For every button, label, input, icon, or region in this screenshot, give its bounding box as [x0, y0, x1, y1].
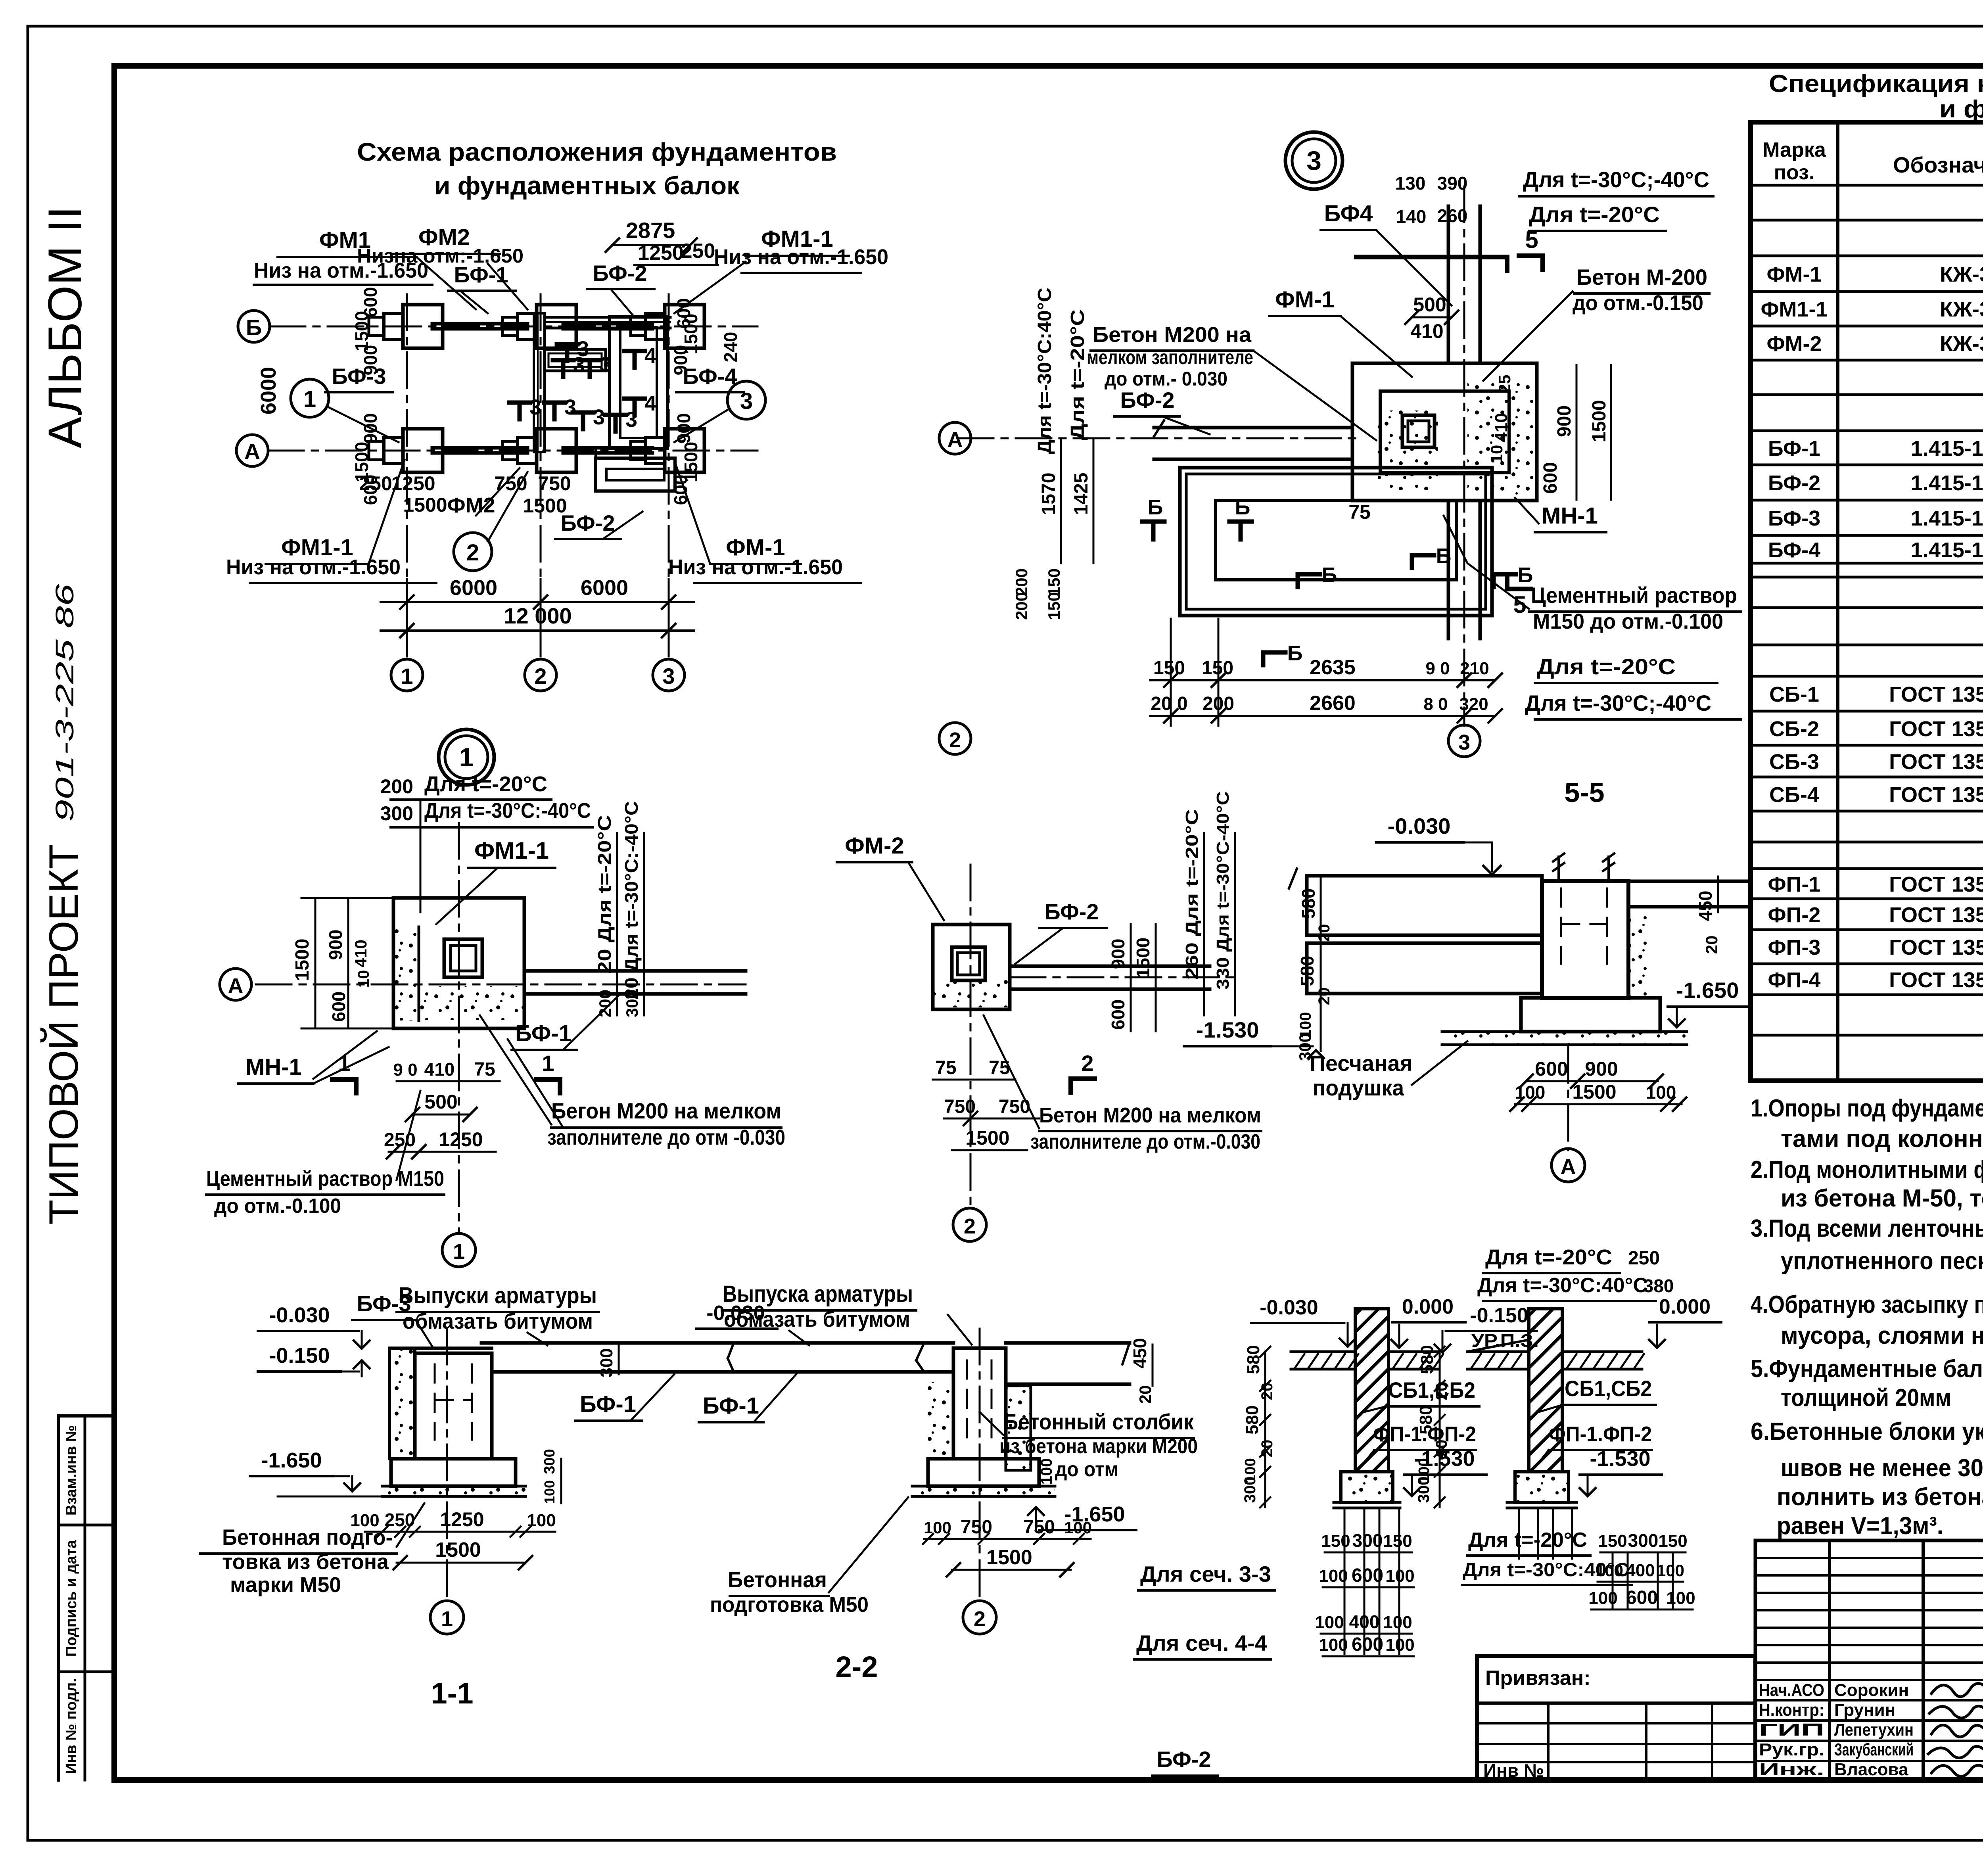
svg-text:2: 2: [974, 1607, 986, 1631]
svg-text:150: 150: [1045, 568, 1063, 596]
svg-text:-0.030: -0.030: [1388, 813, 1451, 838]
svg-text:1500: 1500: [403, 494, 447, 516]
svg-text:380: 380: [1644, 1276, 1674, 1296]
svg-text:БФ-1: БФ-1: [1768, 437, 1820, 460]
svg-text:300: 300: [1241, 1477, 1259, 1503]
svg-text:100: 100: [1385, 1566, 1414, 1586]
svg-text:2-2: 2-2: [836, 1650, 878, 1683]
svg-text:200: 200: [380, 775, 413, 798]
svg-text:ГОСТ 13580-80: ГОСТ 13580-80: [1889, 903, 1983, 927]
svg-text:130: 130: [1395, 173, 1426, 194]
svg-text:заполнителе до отм -0.030: заполнителе до отм -0.030: [547, 1126, 785, 1149]
svg-text:-0.030: -0.030: [269, 1303, 330, 1327]
svg-text:Спецификация к схеме распо: Спецификация к схеме расположения фундам…: [1769, 70, 1983, 98]
svg-text:0.000: 0.000: [1402, 1295, 1454, 1318]
svg-text:Низ на отм.-1.650: Низ на отм.-1.650: [226, 555, 401, 579]
svg-text:1500: 1500: [965, 1127, 1009, 1149]
svg-text:Бетон М200 на: Бетон М200 на: [1093, 323, 1252, 347]
svg-text:6000: 6000: [450, 576, 497, 600]
svg-text:БФ-2: БФ-2: [1120, 387, 1174, 412]
svg-text:Закубанский: Закубанский: [1834, 1740, 1914, 1759]
svg-text:200: 200: [596, 990, 614, 1017]
svg-text:20 Для t=-30°C:-40°C: 20 Для t=-30°C:-40°C: [621, 801, 642, 999]
svg-text:Б: Б: [246, 315, 262, 340]
svg-text:обмазать битумом: обмазать битумом: [403, 1308, 593, 1333]
svg-text:2: 2: [949, 728, 961, 752]
svg-text:БФ-2: БФ-2: [1044, 899, 1099, 924]
svg-text:-1.650: -1.650: [1676, 978, 1739, 1003]
svg-text:900: 900: [670, 345, 691, 376]
svg-text:ГОСТ 13575-78: ГОСТ 13575-78: [1889, 750, 1983, 774]
svg-text:Песчаная: Песчаная: [1310, 1051, 1413, 1076]
svg-text:МН-1: МН-1: [245, 1054, 302, 1080]
svg-text:260 Для t=-20°C: 260 Для t=-20°C: [1182, 809, 1202, 980]
svg-text:ФМ-2: ФМ-2: [845, 833, 904, 859]
svg-text:3: 3: [740, 388, 753, 414]
svg-text:ГИП: ГИП: [1759, 1720, 1824, 1740]
svg-text:300: 300: [380, 802, 413, 825]
svg-text:ФМ-1: ФМ-1: [1275, 287, 1334, 313]
svg-text:Для t=-20°C: Для t=-20°C: [1067, 309, 1088, 440]
svg-text:-0.150: -0.150: [269, 1344, 330, 1368]
svg-text:410: 410: [1492, 413, 1511, 442]
svg-text:200: 200: [1202, 693, 1234, 714]
svg-text:100: 100: [1385, 1635, 1414, 1655]
svg-text:1250: 1250: [439, 1128, 483, 1151]
svg-text:толщиной 20мм: толщиной 20мм: [1781, 1384, 1951, 1412]
svg-text:и фундаментных балок: и фундаментных балок: [1939, 96, 1983, 123]
svg-text:Н.контр:: Н.контр:: [1759, 1700, 1824, 1720]
svg-text:-0.030: -0.030: [1260, 1296, 1318, 1319]
svg-text:1: 1: [542, 1051, 554, 1076]
svg-text:0.000: 0.000: [1659, 1295, 1711, 1318]
svg-text:Низ на отм.-1.650: Низ на отм.-1.650: [668, 555, 843, 579]
svg-text:швов не менее 300мм. Моноли: швов не менее 300мм. Монолитные участки …: [1781, 1454, 1983, 1482]
svg-text:БФ-4: БФ-4: [1768, 538, 1820, 562]
svg-text:6000: 6000: [257, 367, 280, 414]
svg-text:900: 900: [360, 413, 381, 444]
svg-text:500: 500: [424, 1091, 457, 1113]
svg-text:СБ1,СБ2: СБ1,СБ2: [1388, 1377, 1475, 1402]
svg-text:4: 4: [644, 391, 656, 415]
svg-text:БФ4: БФ4: [1324, 201, 1373, 226]
svg-text:300: 300: [597, 1348, 616, 1377]
svg-text:750: 750: [1023, 1517, 1055, 1538]
svg-text:1570: 1570: [1038, 473, 1059, 515]
svg-text:Бетонная: Бетонная: [728, 1567, 827, 1592]
svg-text:до отм: до отм: [1055, 1458, 1118, 1481]
svg-text:СБ-2: СБ-2: [1769, 717, 1819, 741]
svg-text:Инж.: Инж.: [1759, 1760, 1824, 1779]
svg-text:Для t=-20°C: Для t=-20°C: [1537, 654, 1676, 679]
svg-text:750: 750: [538, 472, 571, 495]
svg-text:ГОСТ 13580-80: ГОСТ 13580-80: [1889, 873, 1983, 896]
svg-text:Б: Б: [1436, 544, 1452, 568]
svg-text:ФМ-2: ФМ-2: [1766, 332, 1822, 356]
svg-text:9 0: 9 0: [393, 1060, 417, 1080]
svg-text:Для t=-20°C: Для t=-20°C: [424, 772, 547, 796]
svg-text:до отм.-0.100: до отм.-0.100: [214, 1195, 341, 1218]
svg-text:410: 410: [424, 1059, 455, 1080]
svg-text:4.Обратную засыпку производи: 4.Обратную засыпку производить грунтом б…: [1751, 1291, 1983, 1318]
svg-text:1: 1: [441, 1607, 453, 1631]
svg-text:3: 3: [662, 664, 675, 689]
svg-text:Бетон М200 на мелком: Бетон М200 на мелком: [1039, 1103, 1261, 1127]
svg-text:100: 100: [1383, 1613, 1412, 1632]
svg-text:3.Под всеми ленточными фунда: 3.Под всеми ленточными фундаментами из б…: [1751, 1215, 1983, 1242]
svg-text:2660: 2660: [1310, 692, 1356, 715]
svg-text:3: 3: [600, 353, 612, 377]
svg-text:4: 4: [644, 344, 656, 368]
svg-text:Для сеч. 3-3: Для сеч. 3-3: [1140, 1561, 1271, 1586]
svg-text:1425: 1425: [1071, 473, 1092, 515]
svg-text:и фундаментных балок: и фундаментных балок: [434, 171, 740, 200]
svg-text:Для t=-30°C;-40°C: Для t=-30°C;-40°C: [1523, 167, 1709, 192]
svg-text:400: 400: [1626, 1561, 1655, 1580]
svg-text:Б: Б: [1235, 495, 1250, 519]
svg-text:410: 410: [1410, 320, 1443, 342]
svg-text:100: 100: [1315, 1613, 1344, 1632]
svg-text:товка из бетона: товка из бетона: [222, 1550, 389, 1574]
svg-text:1: 1: [303, 386, 316, 412]
svg-text:1: 1: [459, 742, 474, 772]
svg-text:Б: Б: [1148, 495, 1163, 519]
svg-text:25: 25: [1495, 375, 1514, 393]
svg-text:200: 200: [1012, 568, 1031, 596]
svg-text:МН-1: МН-1: [1542, 503, 1598, 529]
svg-text:600: 600: [1108, 999, 1128, 1030]
svg-text:Лепетухин: Лепетухин: [1834, 1720, 1914, 1740]
svg-text:3: 3: [593, 405, 605, 429]
svg-text:СБ1,СБ2: СБ1,СБ2: [1565, 1376, 1652, 1401]
svg-text:М150 до отм.-0.100: М150 до отм.-0.100: [1533, 610, 1723, 633]
svg-text:2.Под монолитными фундамента: 2.Под монолитными фундаментами выполнить…: [1751, 1156, 1983, 1184]
svg-text:300: 300: [1296, 1033, 1314, 1061]
svg-text:2: 2: [466, 540, 479, 566]
svg-text:КЖ-3: КЖ-3: [1940, 332, 1983, 356]
svg-text:2: 2: [964, 1214, 976, 1238]
svg-text:1.Опоры под фундаментные балк: 1.Опоры под фундаментные балки бетониров…: [1751, 1095, 1983, 1122]
svg-text:300: 300: [1415, 1477, 1433, 1503]
svg-text:ФМ1-1: ФМ1-1: [1761, 297, 1828, 321]
svg-text:12 000: 12 000: [504, 603, 572, 628]
svg-text:заполнителе до отм.-0.030: заполнителе до отм.-0.030: [1030, 1130, 1260, 1153]
svg-text:до отм.- 0.030: до отм.- 0.030: [1105, 368, 1227, 390]
svg-text:уплотненного песка h=100мм.: уплотненного песка h=100мм.: [1781, 1247, 1983, 1275]
svg-text:3: 3: [1306, 146, 1321, 176]
svg-text:100: 100: [1515, 1082, 1546, 1103]
svg-text:Бетон М-200: Бетон М-200: [1576, 265, 1707, 290]
svg-text:ФМ2: ФМ2: [447, 493, 495, 517]
svg-text:ФП-1: ФП-1: [1768, 873, 1821, 896]
svg-text:3: 3: [564, 395, 576, 419]
svg-text:полнить из бетона М100. Объ: полнить из бетона М100. Объем бетона на …: [1777, 1483, 1983, 1511]
svg-text:КЖ-3: КЖ-3: [1940, 263, 1983, 286]
svg-text:140: 140: [1396, 206, 1427, 227]
svg-text:901-3-225 86: 901-3-225 86: [50, 583, 79, 822]
svg-text:450: 450: [1130, 1338, 1150, 1369]
svg-text:Выпуски арматуры: Выпуски арматуры: [399, 1283, 597, 1308]
svg-text:900: 900: [1585, 1058, 1618, 1080]
svg-text:БФ-2: БФ-2: [560, 510, 615, 535]
svg-text:8 0: 8 0: [1423, 694, 1448, 714]
svg-text:поз.: поз.: [1774, 161, 1815, 184]
svg-text:3: 3: [573, 353, 585, 377]
svg-text:1: 1: [401, 664, 413, 689]
svg-text:из бетона марки М200: из бетона марки М200: [999, 1435, 1198, 1458]
svg-text:ФП-2: ФП-2: [1768, 903, 1821, 927]
svg-text:20: 20: [1316, 988, 1333, 1005]
svg-text:Для t=-30°C:40°C: Для t=-30°C:40°C: [1034, 288, 1055, 454]
svg-text:ФП-1.ФП-2: ФП-1.ФП-2: [1549, 1422, 1652, 1446]
svg-text:100: 100: [1596, 1561, 1623, 1580]
svg-text:БФ-1: БФ-1: [580, 1391, 636, 1417]
svg-text:600: 600: [1540, 462, 1561, 494]
svg-text:ГОСТ 13575-78: ГОСТ 13575-78: [1889, 683, 1983, 706]
svg-text:1.415-1 в.1: 1.415-1 в.1: [1911, 471, 1983, 495]
svg-text:330 Для t=-30°C-40°C: 330 Для t=-30°C-40°C: [1213, 791, 1233, 990]
svg-text:100: 100: [1064, 1518, 1092, 1537]
svg-text:10: 10: [355, 970, 372, 988]
svg-text:ФП-4: ФП-4: [1768, 968, 1821, 992]
svg-text:равен V=1,3м³.: равен V=1,3м³.: [1777, 1512, 1943, 1540]
svg-text:100: 100: [1319, 1566, 1348, 1586]
svg-text:Схема расположения фундамент: Схема расположения фундаментов: [357, 138, 837, 166]
svg-text:ТИПОВОЙ ПРОЕКТ: ТИПОВОЙ ПРОЕКТ: [40, 844, 87, 1225]
svg-text:20: 20: [1316, 924, 1333, 942]
svg-text:1500: 1500: [435, 1538, 481, 1561]
svg-text:6000: 6000: [581, 576, 628, 600]
svg-text:600: 600: [1535, 1058, 1568, 1080]
svg-text:20: 20: [1136, 1385, 1155, 1404]
svg-text:до отм.-0.150: до отм.-0.150: [1573, 291, 1703, 315]
svg-text:9 0: 9 0: [1425, 659, 1450, 678]
svg-text:Для t=-20°C: Для t=-20°C: [1468, 1529, 1587, 1552]
svg-text:150: 150: [1383, 1531, 1412, 1551]
svg-text:750: 750: [944, 1096, 976, 1117]
svg-text:600: 600: [1352, 1634, 1383, 1655]
svg-text:1: 1: [338, 1051, 350, 1076]
svg-text:-0.150: -0.150: [1470, 1304, 1528, 1327]
svg-text:Подпись и дата: Подпись и дата: [63, 1540, 80, 1657]
svg-text:900: 900: [673, 413, 694, 444]
svg-text:Нач.АСО: Нач.АСО: [1759, 1680, 1824, 1700]
svg-text:100: 100: [1657, 1561, 1684, 1580]
svg-text:450: 450: [1695, 891, 1716, 921]
svg-text:Марка: Марка: [1762, 138, 1826, 161]
svg-text:Бегон М200 на мелком: Бегон М200 на мелком: [551, 1098, 781, 1123]
svg-text:75: 75: [474, 1059, 495, 1080]
svg-text:580: 580: [1417, 1345, 1437, 1374]
svg-text:Власова: Власова: [1834, 1760, 1908, 1779]
svg-text:390: 390: [1437, 173, 1468, 194]
svg-text:580: 580: [1298, 888, 1319, 919]
svg-text:150: 150: [1321, 1531, 1350, 1551]
svg-text:1.415-1 в.1: 1.415-1 в.1: [1911, 506, 1983, 530]
svg-text:А: А: [947, 428, 963, 452]
svg-text:2875: 2875: [626, 218, 675, 243]
svg-text:Грунин: Грунин: [1834, 1700, 1895, 1720]
svg-text:300: 300: [541, 1449, 558, 1474]
svg-text:5.Фундаментные балки укладыв: 5.Фундаментные балки укладывать на слой …: [1751, 1355, 1983, 1383]
svg-text:100: 100: [1319, 1635, 1348, 1655]
svg-text:150: 150: [1045, 592, 1063, 620]
svg-text:5-5: 5-5: [1564, 777, 1604, 808]
svg-text:Инв №: Инв №: [1483, 1760, 1544, 1781]
svg-text:обмазать битумом: обмазать битумом: [724, 1306, 910, 1331]
svg-text:100: 100: [1588, 1588, 1617, 1608]
svg-text:3: 3: [1458, 731, 1470, 754]
svg-text:100: 100: [350, 1511, 379, 1530]
svg-text:ГОСТ 13575-78: ГОСТ 13575-78: [1889, 717, 1983, 741]
svg-text:Привязан:: Привязан:: [1485, 1667, 1591, 1690]
svg-text:400: 400: [1349, 1611, 1380, 1632]
svg-text:ФП-3: ФП-3: [1768, 936, 1821, 959]
svg-text:БФ-2: БФ-2: [1768, 471, 1820, 495]
svg-text:тами под колонны в той же: тами под колонны в той же опалубке.: [1781, 1125, 1983, 1153]
svg-text:БФ-2: БФ-2: [593, 261, 647, 286]
svg-text:3: 3: [529, 395, 541, 419]
svg-text:260: 260: [1437, 205, 1468, 226]
svg-text:250: 250: [681, 240, 715, 263]
svg-text:подушка: подушка: [1313, 1075, 1404, 1100]
svg-text:1: 1: [453, 1240, 465, 1264]
svg-text:Бетонный столбик: Бетонный столбик: [1003, 1409, 1194, 1434]
svg-text:БФ-4: БФ-4: [683, 364, 737, 389]
svg-text:КЖ-3: КЖ-3: [1940, 297, 1983, 321]
svg-text:210: 210: [1460, 659, 1489, 678]
svg-text:Б: Б: [1322, 563, 1337, 587]
svg-text:250: 250: [384, 1130, 416, 1151]
svg-text:мусора, слоями не более 200: мусора, слоями не более 200мм с уплотнен…: [1781, 1322, 1983, 1349]
svg-text:10: 10: [1487, 445, 1506, 464]
svg-text:БФ-3: БФ-3: [1768, 506, 1820, 530]
svg-text:150: 150: [1658, 1531, 1687, 1551]
svg-text:БФ-2: БФ-2: [1156, 1747, 1211, 1772]
svg-text:2: 2: [534, 664, 547, 689]
svg-text:Для t=-30°C:40°C: Для t=-30°C:40°C: [1477, 1274, 1648, 1297]
svg-text:1-1: 1-1: [431, 1677, 474, 1710]
svg-text:ГОСТ 13580-80: ГОСТ 13580-80: [1889, 968, 1983, 992]
svg-text:600: 600: [1352, 1565, 1383, 1586]
svg-text:150: 150: [1598, 1531, 1627, 1551]
svg-text:250: 250: [385, 1510, 415, 1530]
svg-text:6.Бетонные блоки укладывать: 6.Бетонные блоки укладывать на цем. раст…: [1751, 1418, 1983, 1445]
svg-text:1.415-1 в.1: 1.415-1 в.1: [1911, 437, 1983, 460]
svg-text:Цементный раствор М150: Цементный раствор М150: [206, 1167, 444, 1191]
svg-text:600: 600: [328, 992, 349, 1022]
svg-text:Для t=-20°C: Для t=-20°C: [1485, 1245, 1612, 1269]
svg-text:2: 2: [1081, 1051, 1093, 1076]
svg-text:410: 410: [351, 940, 370, 967]
svg-text:мелком заполнителе: мелком заполнителе: [1087, 346, 1253, 368]
svg-text:Б: Б: [1287, 641, 1303, 665]
svg-text:Для t=-20°C: Для t=-20°C: [1529, 202, 1660, 227]
svg-text:Цементный раствор: Цементный раствор: [1531, 583, 1737, 608]
svg-text:из бетона М-50, толщиной: из бетона М-50, толщиной 100мм.: [1781, 1185, 1983, 1212]
svg-text:Для сеч. 4-4: Для сеч. 4-4: [1136, 1630, 1267, 1655]
svg-text:-1.650: -1.650: [261, 1448, 322, 1472]
svg-text:-1.530: -1.530: [1590, 1447, 1650, 1471]
svg-text:300: 300: [1352, 1530, 1383, 1551]
svg-text:Инв № подл.: Инв № подл.: [63, 1678, 80, 1774]
svg-text:600: 600: [1626, 1587, 1658, 1608]
svg-text:100: 100: [1666, 1588, 1695, 1608]
svg-text:Сорокин: Сорокин: [1834, 1680, 1909, 1700]
svg-text:100: 100: [541, 1480, 558, 1504]
svg-text:БФ-1: БФ-1: [515, 1020, 572, 1046]
svg-text:марки М50: марки М50: [230, 1573, 341, 1597]
svg-text:20 Для t=-20°C: 20 Для t=-20°C: [594, 815, 615, 974]
svg-text:АЛЬБОМ II: АЛЬБОМ II: [38, 206, 92, 449]
svg-text:1500: 1500: [986, 1546, 1032, 1569]
svg-text:900: 900: [1554, 405, 1575, 437]
svg-text:А: А: [1561, 1155, 1576, 1179]
svg-text:Для t=-30°C:-40°C: Для t=-30°C:-40°C: [424, 799, 591, 823]
svg-text:Для t=-30°C;-40°C: Для t=-30°C;-40°C: [1525, 691, 1711, 715]
svg-text:Рук.гр.: Рук.гр.: [1759, 1740, 1824, 1759]
svg-text:Выпуска арматуры: Выпуска арматуры: [723, 1281, 913, 1307]
svg-text:75: 75: [935, 1057, 956, 1078]
svg-text:250: 250: [359, 472, 392, 495]
svg-text:-1.530: -1.530: [1196, 1017, 1259, 1042]
svg-text:900: 900: [1108, 939, 1128, 969]
svg-text:ГОСТ 13580-80: ГОСТ 13580-80: [1889, 936, 1983, 959]
svg-text:580: 580: [1243, 1405, 1262, 1434]
svg-text:150: 150: [1153, 658, 1185, 679]
svg-text:Взам.инв №: Взам.инв №: [63, 1425, 80, 1515]
svg-text:1500: 1500: [292, 939, 313, 981]
svg-text:100: 100: [1038, 1458, 1055, 1485]
svg-text:ГОСТ 13575-78: ГОСТ 13575-78: [1889, 783, 1983, 807]
svg-text:1250: 1250: [391, 472, 435, 495]
svg-text:150: 150: [1202, 658, 1233, 679]
svg-text:ФМ-1: ФМ-1: [1766, 263, 1822, 286]
svg-text:240: 240: [720, 332, 741, 363]
svg-text:СБ-1: СБ-1: [1769, 683, 1819, 706]
svg-text:2635: 2635: [1310, 656, 1356, 679]
svg-text:1.415-1 в.1: 1.415-1 в.1: [1911, 538, 1983, 562]
svg-text:580: 580: [1244, 1345, 1263, 1374]
svg-text:900: 900: [325, 930, 346, 960]
svg-text:320: 320: [1459, 694, 1488, 714]
svg-text:СБ-4: СБ-4: [1769, 783, 1819, 807]
svg-text:580: 580: [1416, 1405, 1436, 1434]
svg-text:20: 20: [1702, 936, 1721, 954]
svg-text:А: А: [244, 439, 260, 464]
svg-text:900: 900: [360, 345, 381, 376]
svg-text:250: 250: [1628, 1248, 1660, 1269]
svg-text:20 0: 20 0: [1151, 693, 1187, 714]
svg-text:подготовка М50: подготовка М50: [710, 1593, 869, 1617]
svg-text:200: 200: [1012, 592, 1031, 620]
svg-text:1500: 1500: [1572, 1081, 1616, 1103]
svg-text:1500: 1500: [1133, 938, 1153, 978]
svg-text:БФ-1: БФ-1: [454, 262, 508, 287]
svg-text:300: 300: [623, 990, 641, 1017]
svg-text:1500: 1500: [1589, 400, 1610, 443]
svg-text:580: 580: [1297, 956, 1318, 986]
svg-text:300: 300: [1628, 1530, 1659, 1551]
svg-text:75: 75: [1348, 501, 1371, 523]
svg-text:БФ-1: БФ-1: [703, 1393, 759, 1419]
svg-text:ФМ1-1: ФМ1-1: [474, 837, 549, 864]
svg-text:СБ-3: СБ-3: [1769, 750, 1819, 774]
svg-text:Обозначение: Обозначение: [1893, 152, 1983, 177]
svg-text:А: А: [228, 974, 244, 998]
